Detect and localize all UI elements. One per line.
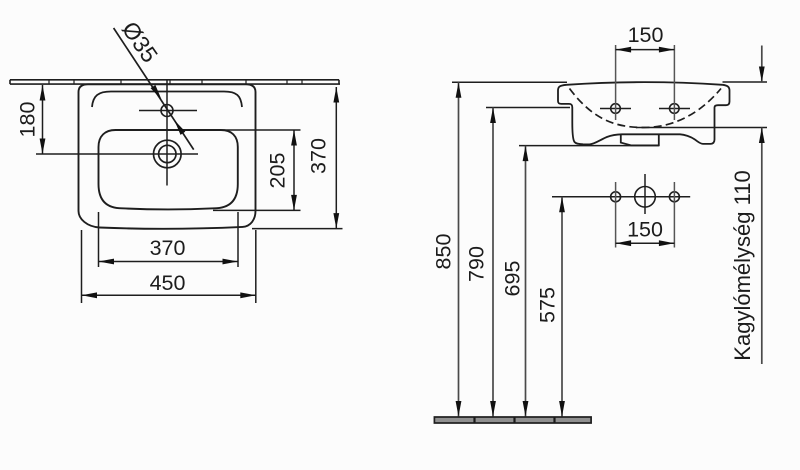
svg-text:150: 150 — [627, 218, 663, 242]
tap hole left — [611, 104, 621, 114]
reference line 790 — [486, 107, 570, 109]
svg-text:575: 575 — [536, 287, 560, 323]
reference line 110 top — [723, 81, 768, 83]
tap hole right tick — [659, 108, 690, 110]
dimension 370 right line — [335, 87, 337, 229]
dimension 450 extension lines — [82, 230, 256, 303]
faucet hole circle — [161, 105, 173, 117]
svg-text:180: 180 — [16, 102, 40, 138]
dimension 205 extension lines — [213, 130, 301, 210]
basin rim inner arc — [92, 92, 242, 108]
leader line Ø35 — [114, 28, 194, 150]
svg-text:850: 850 — [432, 234, 456, 270]
dimension 450 arrows — [82, 292, 98, 298]
150 top arrows — [616, 47, 632, 53]
svg-text:370: 370 — [150, 236, 186, 260]
drain outer circle — [154, 140, 182, 168]
drain inner circle — [159, 145, 176, 162]
vertical centerline — [166, 79, 168, 186]
dimension 110 line upper segment — [761, 46, 763, 83]
top reference line (850 / rim level) — [452, 81, 567, 83]
dimension 110 line lower segment — [761, 128, 763, 365]
reference line 575 — [552, 196, 690, 198]
dimension 180 arrows — [40, 85, 46, 101]
150 top extension lines — [616, 45, 675, 120]
wall/counter edge (top view) — [10, 80, 340, 84]
150 middle dimension line — [616, 242, 675, 244]
dimension 370 right arrows — [333, 87, 339, 103]
rim top arc (front view) — [567, 82, 723, 85]
dimension 370 right extension — [252, 228, 343, 230]
tap hole left tick — [600, 108, 631, 110]
siphon big circle — [635, 187, 656, 208]
svg-text:790: 790 — [465, 246, 489, 282]
dimension 575 line — [561, 197, 563, 417]
svg-text:Ø35: Ø35 — [117, 17, 163, 68]
reference line 110 bottom — [636, 127, 767, 129]
faucet hole centerline horizontal — [139, 110, 197, 112]
dimension 695 line — [525, 146, 527, 417]
dimension 370 bottom extension lines — [99, 212, 239, 267]
150 top dimension line — [616, 49, 675, 51]
hidden bowl curve (dashed) — [570, 89, 722, 128]
siphon small circle right — [669, 192, 679, 202]
svg-text:Kagylómélység 110: Kagylómélység 110 — [730, 170, 755, 360]
siphon small circle left — [611, 192, 621, 202]
drain centerline horizontal — [36, 153, 198, 155]
dimension 370 bottom arrows — [99, 259, 115, 265]
dimension 180 line — [42, 85, 44, 154]
leader arrowhead lower — [174, 120, 185, 135]
svg-text:205: 205 — [266, 153, 290, 189]
dimension 205 line — [293, 130, 295, 210]
dimension 790 line — [492, 108, 494, 417]
inner bowl outline — [99, 130, 238, 209]
svg-text:370: 370 — [307, 138, 331, 174]
dimension 370 bottom line — [99, 261, 239, 263]
svg-text:450: 450 — [150, 271, 186, 295]
basin outer outline (top view) — [79, 84, 256, 229]
dimension 850 line — [458, 82, 460, 416]
basin body profile (front view) — [558, 85, 730, 145]
floor bar — [434, 417, 591, 423]
150 middle arrows — [616, 240, 632, 246]
svg-text:150: 150 — [628, 23, 664, 47]
dimension 450 line — [82, 294, 256, 296]
drain tab below body — [621, 134, 659, 145]
dimension 205 arrows — [291, 130, 297, 146]
svg-text:695: 695 — [501, 261, 525, 297]
reference line 695 — [519, 145, 659, 147]
siphon centerlines — [616, 182, 675, 248]
leader arrowhead upper — [151, 85, 162, 100]
tap hole right — [670, 104, 680, 114]
